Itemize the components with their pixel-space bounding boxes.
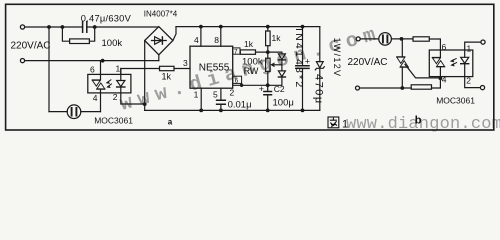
svg-text:220V/AC: 220V/AC <box>348 57 388 68</box>
svg-text:2: 2 <box>466 75 471 85</box>
svg-text:4: 4 <box>194 35 199 45</box>
svg-text:IN4007*4: IN4007*4 <box>144 10 178 19</box>
svg-text:b: b <box>415 114 422 126</box>
svg-text:2: 2 <box>113 92 118 102</box>
svg-text:6: 6 <box>442 42 447 52</box>
svg-text:2: 2 <box>230 87 235 97</box>
svg-text:0.47μ/630V: 0.47μ/630V <box>81 13 132 23</box>
svg-text:IN4148*2: IN4148*2 <box>293 28 305 89</box>
svg-text:+: + <box>259 84 264 94</box>
svg-text:www.diangon.com: www.diangon.com <box>346 115 500 134</box>
svg-text:1W/12V: 1W/12V <box>332 38 342 78</box>
svg-text:MOC3061: MOC3061 <box>94 115 133 125</box>
svg-text:C2: C2 <box>274 84 285 94</box>
svg-text:1k: 1k <box>272 33 282 43</box>
svg-text:4: 4 <box>442 74 447 84</box>
svg-text:1k: 1k <box>162 72 172 82</box>
svg-text:220V/AC: 220V/AC <box>11 41 51 52</box>
svg-text:RW: RW <box>244 66 259 76</box>
svg-text:100μ: 100μ <box>273 97 294 108</box>
svg-text:3: 3 <box>183 58 188 68</box>
svg-text:1: 1 <box>467 44 472 54</box>
svg-text:470μ: 470μ <box>313 74 325 105</box>
svg-text:6: 6 <box>90 64 95 74</box>
svg-text:1k: 1k <box>244 39 254 49</box>
svg-text:100k: 100k <box>102 38 123 49</box>
svg-text:5: 5 <box>213 90 218 100</box>
svg-text:a: a <box>168 118 173 127</box>
svg-text:4: 4 <box>93 93 98 103</box>
svg-text:MOC3061: MOC3061 <box>436 96 475 106</box>
svg-text:1: 1 <box>342 119 348 131</box>
svg-text:7: 7 <box>234 49 238 56</box>
svg-text:NE555: NE555 <box>199 63 230 74</box>
svg-text:1: 1 <box>194 90 199 100</box>
svg-text:0.01μ: 0.01μ <box>228 100 252 111</box>
svg-text:6: 6 <box>235 78 239 85</box>
svg-text:8: 8 <box>214 35 219 45</box>
svg-text:1: 1 <box>116 64 121 74</box>
